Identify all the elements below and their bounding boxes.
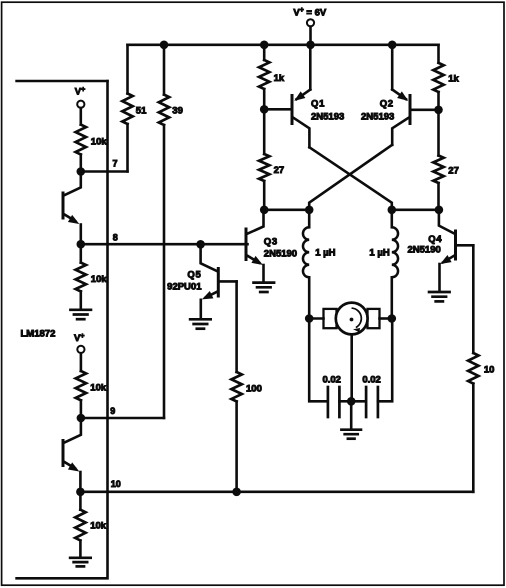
label Q2 bbox=[361, 98, 394, 122]
resistor 10k fourth bbox=[75, 492, 107, 557]
node rail-1k-left junction bbox=[260, 41, 269, 50]
node 8 bbox=[77, 240, 86, 249]
svg-text:Q1: Q1 bbox=[311, 98, 325, 109]
svg-text:2N5193: 2N5193 bbox=[361, 112, 394, 123]
node 9 bbox=[77, 414, 86, 423]
inductor L2 1uH bbox=[392, 210, 398, 319]
node A1 bbox=[260, 206, 269, 215]
label pin 8 bbox=[113, 232, 118, 242]
resistor 51 bbox=[122, 45, 147, 172]
node cap junction bbox=[347, 397, 356, 406]
wire pin 9 bbox=[81, 417, 164, 420]
node rail-Q2e junction bbox=[388, 41, 397, 50]
svg-text:1 µH: 1 µH bbox=[369, 248, 389, 259]
transistor Q4 2N5190 bbox=[439, 210, 473, 290]
label Q1 bbox=[311, 98, 344, 122]
svg-text:39: 39 bbox=[172, 105, 183, 116]
svg-text:Q4: Q4 bbox=[428, 234, 442, 245]
wire left cap branch bbox=[309, 319, 326, 402]
svg-text:51: 51 bbox=[136, 105, 147, 116]
node A2 bbox=[305, 206, 314, 215]
label Q3 bbox=[264, 237, 297, 260]
svg-text:2N5190: 2N5190 bbox=[264, 248, 297, 259]
wire V+ rail bbox=[128, 43, 439, 46]
svg-text:27: 27 bbox=[448, 166, 459, 177]
node B2 bbox=[435, 206, 444, 215]
transistor internal T1 bbox=[63, 172, 81, 245]
svg-text:V+: V+ bbox=[74, 333, 84, 344]
ground under caps bbox=[341, 401, 361, 438]
resistor 27 left bbox=[259, 109, 284, 210]
wire right node row bbox=[392, 209, 439, 212]
inductor L1 1uH bbox=[303, 210, 309, 319]
transistor internal T2 bbox=[63, 418, 81, 492]
resistor 39 bbox=[159, 45, 183, 418]
ground under Q4 bbox=[429, 292, 450, 301]
node rail-V+ junction bbox=[306, 41, 315, 50]
V+ terminal internal 2 bbox=[74, 333, 85, 371]
node 7 bbox=[77, 167, 86, 176]
svg-text:0.02: 0.02 bbox=[322, 375, 341, 386]
ground under Q5 bbox=[190, 319, 211, 328]
resistor 10k third bbox=[76, 371, 107, 418]
label L2 bbox=[369, 248, 389, 259]
svg-text:10k: 10k bbox=[91, 274, 108, 285]
transistor Q3 2N5190 bbox=[245, 210, 263, 281]
node motor right bbox=[388, 314, 397, 323]
svg-text:2N5193: 2N5193 bbox=[311, 112, 344, 123]
node motor left bbox=[305, 314, 314, 323]
svg-text:10: 10 bbox=[484, 365, 495, 376]
motor M1 bbox=[309, 303, 392, 335]
svg-text:0.02: 0.02 bbox=[362, 375, 381, 386]
node Q1 base junction bbox=[260, 105, 269, 114]
svg-text:1k: 1k bbox=[274, 73, 285, 84]
resistor 100 bbox=[231, 281, 261, 491]
node B1 bbox=[388, 206, 397, 215]
transistor Q1 2N5193 bbox=[264, 45, 310, 148]
transistor Q2 2N5193 bbox=[392, 45, 438, 145]
svg-text:100: 100 bbox=[246, 383, 262, 394]
node Q2 base junction bbox=[434, 106, 443, 115]
svg-text:Q5: Q5 bbox=[187, 270, 201, 281]
svg-text:2N5190: 2N5190 bbox=[408, 244, 441, 255]
node 10 bbox=[76, 488, 85, 497]
wire motor to cap node bbox=[350, 334, 353, 401]
capacitor C2 0.02 bbox=[351, 375, 381, 417]
resistor 1k right bbox=[433, 45, 459, 110]
svg-text:10k: 10k bbox=[90, 521, 107, 532]
transistor Q5 92PU01 bbox=[201, 244, 237, 317]
wire pin 8 bbox=[81, 243, 246, 246]
svg-text:Q2: Q2 bbox=[380, 98, 394, 109]
capacitor C1 0.02 bbox=[322, 375, 351, 417]
wire Q1 collector to right node bbox=[309, 147, 391, 210]
label pin 10 bbox=[111, 479, 121, 489]
svg-text:27: 27 bbox=[274, 165, 285, 176]
wire left node row bbox=[264, 209, 309, 212]
svg-text:10k: 10k bbox=[91, 137, 108, 148]
resistor 10k second bbox=[76, 244, 108, 308]
label LM1872 bbox=[21, 328, 56, 339]
ground under 10k second bbox=[70, 310, 91, 319]
svg-text:10: 10 bbox=[111, 479, 121, 489]
label pin 9 bbox=[110, 406, 115, 416]
ground under Q3 bbox=[254, 283, 274, 292]
svg-text:7: 7 bbox=[113, 159, 118, 169]
svg-text:10k: 10k bbox=[90, 382, 107, 393]
resistor 1k left bbox=[259, 45, 285, 110]
label L1 bbox=[315, 248, 335, 259]
IC U1 LM1872 partial outline bbox=[17, 81, 108, 578]
wire pin 7 bbox=[81, 170, 128, 173]
svg-text:9: 9 bbox=[110, 406, 115, 416]
node Q5 base junction bbox=[196, 240, 205, 249]
wire pin 10 bbox=[80, 490, 473, 493]
V+ supply terminal bbox=[293, 7, 327, 45]
label Q4 bbox=[408, 234, 443, 255]
resistor 27 right bbox=[433, 110, 459, 210]
wire right cap branch bbox=[378, 319, 392, 402]
wire Q2 collector to left node bbox=[309, 145, 392, 210]
svg-text:Q3: Q3 bbox=[264, 237, 278, 248]
svg-text:1 µH: 1 µH bbox=[315, 248, 335, 259]
svg-text:92PU01: 92PU01 bbox=[167, 281, 202, 292]
svg-text:V+ = 6V: V+ = 6V bbox=[293, 7, 327, 18]
ground under 10k fourth bbox=[70, 558, 91, 567]
svg-text:LM1872: LM1872 bbox=[21, 328, 56, 339]
resistor 10k first bbox=[76, 125, 108, 172]
label Q5 bbox=[167, 270, 202, 293]
svg-text:1k: 1k bbox=[448, 74, 459, 85]
V+ terminal internal 1 bbox=[75, 86, 85, 124]
label pin 7 bbox=[113, 159, 118, 169]
svg-text:8: 8 bbox=[113, 232, 118, 242]
node rail-39 junction bbox=[160, 41, 169, 50]
svg-text:V+: V+ bbox=[75, 86, 85, 97]
resistor 10 bbox=[468, 245, 494, 491]
node 100-pin10 junction bbox=[232, 488, 241, 497]
